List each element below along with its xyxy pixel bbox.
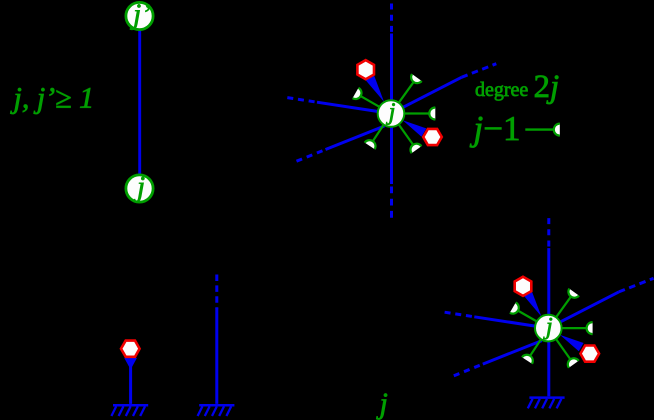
svg-text:j−1: j−1 — [469, 109, 520, 148]
star2 ray left (dashed tip) — [445, 312, 475, 317]
rooted bare stick (dashed top) — [215, 275, 218, 310]
star1 leaf right — [429, 108, 435, 120]
star2 leaf lower-left — [522, 355, 533, 364]
star1 leaf stem upper-right — [399, 82, 414, 103]
star1 ray left (dashed tip) — [287, 98, 317, 103]
star1 ray left (solid) — [317, 102, 377, 111]
star2 central vertex circle with label j — [535, 315, 562, 342]
star2 ray down to root — [547, 341, 550, 397]
rooted stick with hexagon: wedge — [124, 358, 137, 370]
star2 hexagon terminal lower-right — [581, 346, 600, 362]
star2 leaf upper-right — [568, 289, 579, 298]
star2 leaf stem lower-right — [556, 339, 571, 360]
star1 leaf left — [353, 88, 362, 99]
star2 leaf left — [510, 302, 519, 313]
legend leaf stem — [525, 128, 554, 130]
star2 ray up (solid) — [547, 248, 550, 316]
star1 edge to hexagon upper-left (wedge) — [364, 73, 384, 102]
star2 edge to hexagon lower-right (wedge) — [560, 335, 584, 351]
rooted bare stick (solid) — [215, 309, 218, 404]
star1 ray up (solid) — [390, 34, 393, 102]
star2 hexagon terminal upper-left — [515, 277, 532, 296]
rooted stick with hexagon: stem — [129, 365, 132, 404]
star2 ray upper-right (solid) — [560, 292, 619, 322]
star1 hexagon terminal lower-right — [423, 129, 442, 145]
star2 ray up (dashed tip) — [547, 218, 550, 249]
star2 leaf stem upper-right — [556, 297, 571, 318]
legend leaf half-disk — [554, 124, 560, 136]
star2 ray left (solid) — [474, 317, 534, 326]
ground symbol under bare stick — [198, 405, 235, 416]
star1 ray upper-right (solid) — [403, 77, 462, 107]
star2 leaf stem left — [518, 311, 537, 322]
star1 leaf stem lower-right — [399, 124, 414, 145]
star1 ray lower-left (dashed tip) — [297, 150, 326, 162]
vertex circle j (bottom of dumbbell) — [126, 175, 153, 202]
star1 leaf stem right — [404, 112, 429, 114]
star2 leaf right — [587, 322, 593, 334]
ground symbol under hexagon stick — [111, 405, 148, 416]
svg-text:degree: degree — [475, 79, 528, 101]
star1 edge to hexagon lower-right (wedge) — [403, 120, 427, 136]
star2 edge to hexagon upper-left (wedge) — [522, 288, 542, 317]
star2 ray upper-right (dashed tip) — [619, 278, 654, 292]
star2 ray lower-left (solid) — [483, 341, 542, 365]
star1 ray up (dashed tip) — [390, 4, 393, 35]
svg-text:j: j — [375, 387, 387, 420]
svg-text:2j: 2j — [533, 69, 559, 105]
star2 leaf lower-right — [568, 358, 579, 368]
star1 leaf stem lower-left — [373, 125, 384, 142]
rooted stick hexagon terminal — [121, 341, 140, 357]
star1 ray down (dashed tip) — [390, 187, 393, 218]
star1 ray upper-right (dashed tip) — [462, 64, 497, 78]
star2 leaf stem lower-left — [530, 339, 541, 356]
star1 central vertex circle with label j — [378, 100, 405, 127]
star1 leaf upper-right — [411, 74, 422, 83]
star1 ray down (solid) — [390, 126, 393, 184]
star2 ray lower-left (dashed tip) — [454, 364, 483, 376]
star1 leaf stem left — [360, 96, 379, 107]
svg-text:j, j’≥ 1: j, j’≥ 1 — [9, 81, 94, 114]
star1 leaf lower-right — [410, 144, 421, 154]
star1 ray lower-left (solid) — [326, 126, 385, 150]
star1 hexagon terminal upper-left — [357, 60, 374, 79]
vertex circle j-prime (top of dumbbell) — [126, 2, 153, 29]
star1 leaf lower-left — [365, 140, 376, 149]
vertex edge (dumbbell connecting line) — [138, 30, 141, 175]
ground symbol under star2 (root) — [528, 398, 565, 409]
star2 leaf stem right — [562, 327, 587, 329]
